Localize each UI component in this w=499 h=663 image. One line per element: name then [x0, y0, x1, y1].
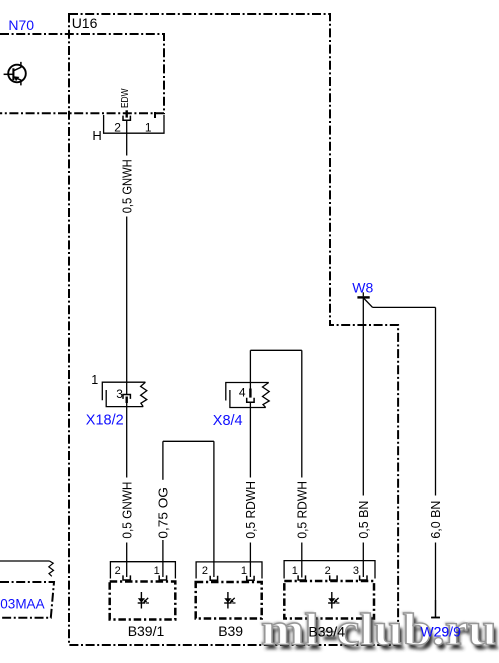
svg-text:6,0 BN: 6,0 BN	[428, 501, 443, 539]
svg-text:B39/1: B39/1	[128, 623, 165, 639]
svg-text:1: 1	[91, 373, 98, 387]
svg-text:N70: N70	[8, 17, 34, 33]
svg-text:B39: B39	[218, 623, 243, 639]
svg-text:0,75 OG: 0,75 OG	[156, 487, 171, 539]
svg-text:0,5 RDWH: 0,5 RDWH	[294, 481, 309, 539]
svg-text:X8/4: X8/4	[213, 413, 243, 429]
svg-text:1: 1	[241, 565, 247, 577]
svg-text:2: 2	[114, 121, 121, 135]
svg-text:4: 4	[239, 386, 246, 400]
svg-text:0,5 BN: 0,5 BN	[356, 501, 371, 539]
svg-text:ml-club.ru: ml-club.ru	[261, 605, 497, 655]
svg-text:2: 2	[115, 565, 121, 577]
svg-text:2: 2	[325, 565, 331, 577]
svg-text:3: 3	[353, 565, 359, 577]
svg-text:EDW: EDW	[120, 88, 131, 108]
svg-text:0,5 GNWH: 0,5 GNWH	[119, 159, 134, 213]
svg-text:0,5 RDWH: 0,5 RDWH	[243, 481, 258, 539]
svg-text:0,5 GNWH: 0,5 GNWH	[119, 482, 134, 539]
svg-text:1: 1	[292, 565, 298, 577]
svg-text:U16: U16	[72, 15, 98, 31]
svg-text:H: H	[92, 128, 101, 143]
svg-text:X18/2: X18/2	[86, 412, 124, 428]
svg-text:03MAA: 03MAA	[0, 596, 44, 611]
svg-text:1: 1	[154, 565, 160, 577]
svg-text:W8: W8	[352, 280, 373, 296]
svg-text:1: 1	[145, 121, 152, 135]
svg-text:W29/9: W29/9	[420, 624, 461, 640]
svg-text:2: 2	[202, 565, 208, 577]
svg-text:B39/4: B39/4	[308, 624, 345, 640]
svg-text:3: 3	[116, 387, 123, 401]
